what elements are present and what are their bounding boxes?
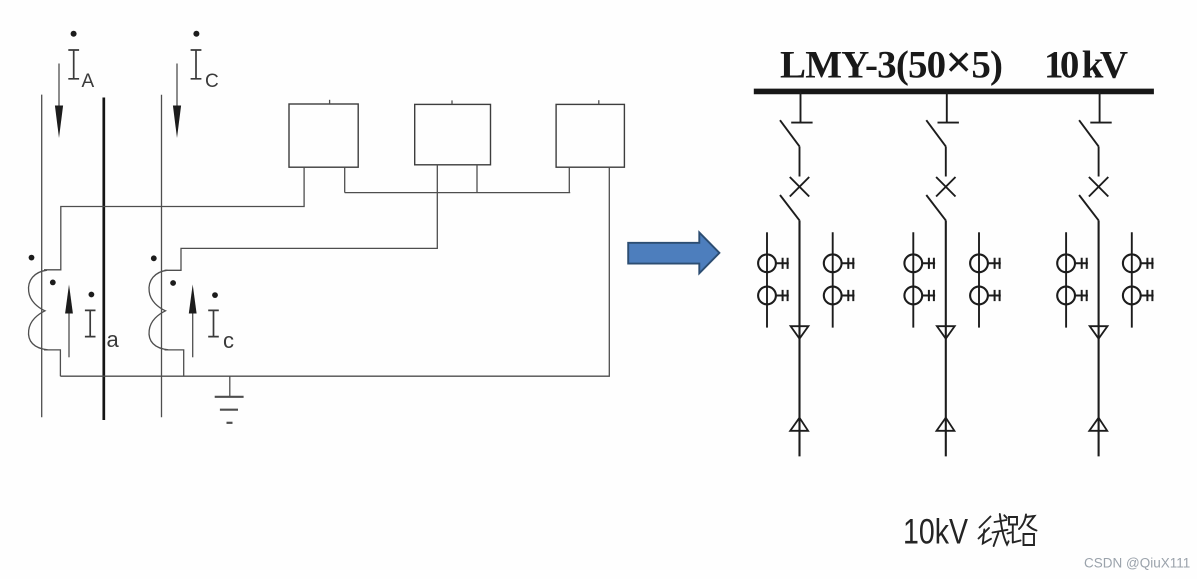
CT1 (phase A current transformer) secondary winding — [29, 270, 48, 350]
ground symbol — [215, 376, 244, 423]
feeder 1 CT right column wire — [832, 232, 834, 327]
label IA — [68, 31, 94, 92]
feeder 2 disconnector QS1 blade — [926, 120, 946, 146]
wire primary phase B (thick) — [102, 98, 105, 421]
meter box 1 — [289, 104, 358, 167]
feeder 1 cable head triangle (down) — [791, 326, 809, 339]
feeder 1 cable head triangle (up) — [790, 418, 808, 431]
feeder 1 CT right lower secondary marks — [842, 290, 855, 301]
CT1 (phase A current transformer) polarity dot (secondary) — [50, 280, 56, 286]
feeder 2 wire blade1 to breaker — [945, 146, 947, 176]
feeder 1 CT left lower secondary marks — [776, 290, 789, 301]
svg-text:10 kV: 10 kV — [1044, 44, 1128, 87]
feeder 3 disconnector QS2 blade — [1079, 195, 1099, 220]
CT2 (phase C current transformer) secondary winding — [149, 270, 168, 350]
CT2 dot near label Ic — [212, 292, 218, 298]
label IC — [191, 31, 219, 92]
feeder 2 CT right upper secondary marks — [988, 258, 1001, 269]
meter box 2 — [415, 104, 491, 164]
wire CT1 secondary bottom lead — [44, 350, 60, 376]
feeder 2 CT left column wire — [912, 232, 914, 327]
current arrow IC (down) — [176, 64, 178, 107]
wire CT2 secondary bottom lead — [165, 350, 184, 376]
svg-text:c: c — [223, 328, 234, 353]
feeder 1 main wire down — [798, 220, 800, 456]
feeder 2 CT right lower circle — [970, 287, 988, 305]
feeder 3 CT right column wire — [1131, 232, 1133, 327]
feeder 3 cable head triangle (up) — [1089, 418, 1107, 431]
wire box1 right leg — [344, 167, 346, 192]
wire common net (boxes right terminals) — [345, 192, 571, 194]
CT1 (phase A current transformer) polarity dot (primary) — [29, 255, 35, 261]
feeder 1 circuit breaker QF (cross) — [790, 177, 809, 197]
wire box2 left leg to CT2 top — [165, 165, 438, 270]
feeder 1 disconnector QS2 blade — [780, 195, 800, 220]
busbar LMY-3 — [754, 89, 1154, 95]
feeder 1 CT right upper circle — [824, 254, 842, 272]
feeder 2 disconnector QS1 fixed contact bar — [938, 122, 959, 124]
feeder 3 CT right lower circle — [1123, 287, 1141, 305]
feeder 1 CT left upper circle — [758, 254, 776, 272]
svg-text:LMY-3(50×5): LMY-3(50×5) — [780, 37, 1003, 89]
feeder 2 CT right column wire — [978, 232, 980, 327]
feeder 1 CT left upper secondary marks — [776, 258, 789, 269]
feeder 2 circuit breaker QF (cross) — [936, 177, 955, 197]
feeder 1 disconnector QS1 fixed contact bar — [791, 122, 812, 124]
CT2 (phase C current transformer) polarity dot (primary) — [151, 255, 157, 261]
current arrow IA (down) — [58, 64, 60, 107]
feeder 3 CT left upper circle — [1057, 254, 1075, 272]
feeder 3 CT left lower secondary marks — [1075, 290, 1088, 301]
feeder 3 disconnector QS1 blade — [1079, 120, 1099, 146]
feeder 3 disconnector QS1 fixed contact bar — [1090, 122, 1111, 124]
wire box1 left leg to CT1 top — [44, 167, 304, 270]
wire box2 right leg — [476, 165, 478, 193]
feeder 2 CT left lower circle — [904, 287, 922, 305]
wire box3 right leg to return net — [60, 167, 609, 376]
feeder 2 CT right lower secondary marks — [988, 290, 1001, 301]
CT2 (phase C current transformer) polarity dot (secondary) — [170, 280, 176, 286]
label Ia — [85, 310, 120, 352]
feeder 1 wire blade1 to breaker — [799, 146, 801, 176]
label CJK char xian (line) — [979, 514, 1009, 546]
feeder 1 CT right lower circle — [824, 287, 842, 305]
feeder 3 CT left upper secondary marks — [1075, 258, 1088, 269]
CT1 dot near label Ia — [89, 292, 95, 298]
feeder 1 CT right upper secondary marks — [842, 258, 855, 269]
meter box 3 — [556, 104, 624, 167]
svg-text:CSDN @QiuX111: CSDN @QiuX111 — [1084, 556, 1190, 571]
feeder 3 main wire down — [1098, 220, 1100, 456]
CT2 (phase C current transformer) secondary current arrow (up) — [192, 313, 194, 357]
feeder 1 tap stub — [800, 92, 802, 123]
feeder 1 disconnector QS1 blade — [780, 120, 800, 146]
svg-text:10kV: 10kV — [903, 513, 969, 552]
feeder 2 cable head triangle (up) — [937, 418, 955, 431]
feeder 2 disconnector QS2 blade — [926, 195, 946, 220]
label Ic — [208, 310, 234, 353]
feeder 2 CT left upper secondary marks — [922, 258, 935, 269]
svg-text:A: A — [82, 71, 95, 92]
feeder 3 wire blade1 to breaker — [1098, 146, 1100, 176]
feeder 2 CT right upper circle — [970, 254, 988, 272]
CT1 (phase A current transformer) secondary current arrow (up) — [68, 313, 70, 357]
wire box3 left leg — [568, 167, 570, 192]
feeder 2 CT left upper circle — [904, 254, 922, 272]
feeder 2 cable head triangle (down) — [937, 326, 955, 339]
svg-text:C: C — [205, 71, 219, 92]
feeder 1 CT left lower circle — [758, 287, 776, 305]
feeder 3 circuit breaker QF (cross) — [1089, 177, 1108, 197]
feeder 2 main wire down — [945, 220, 947, 456]
feeder 2 CT left lower secondary marks — [922, 290, 935, 301]
feeder 1 CT left column wire — [766, 232, 768, 327]
big blue arrow — [628, 233, 719, 274]
svg-text:a: a — [107, 327, 120, 352]
feeder 2 tap stub — [946, 92, 948, 123]
label CJK char lu (road) — [1008, 515, 1037, 546]
feeder 3 tap stub — [1099, 92, 1101, 123]
feeder 3 CT right upper circle — [1123, 254, 1141, 272]
feeder 3 cable head triangle (down) — [1090, 326, 1108, 339]
feeder 3 CT left lower circle — [1057, 287, 1075, 305]
feeder 3 CT right lower secondary marks — [1141, 290, 1154, 301]
feeder 3 CT left column wire — [1065, 232, 1067, 327]
wire primary phase A — [41, 95, 43, 418]
wire primary phase C — [161, 95, 163, 417]
feeder 3 CT right upper secondary marks — [1141, 258, 1154, 269]
